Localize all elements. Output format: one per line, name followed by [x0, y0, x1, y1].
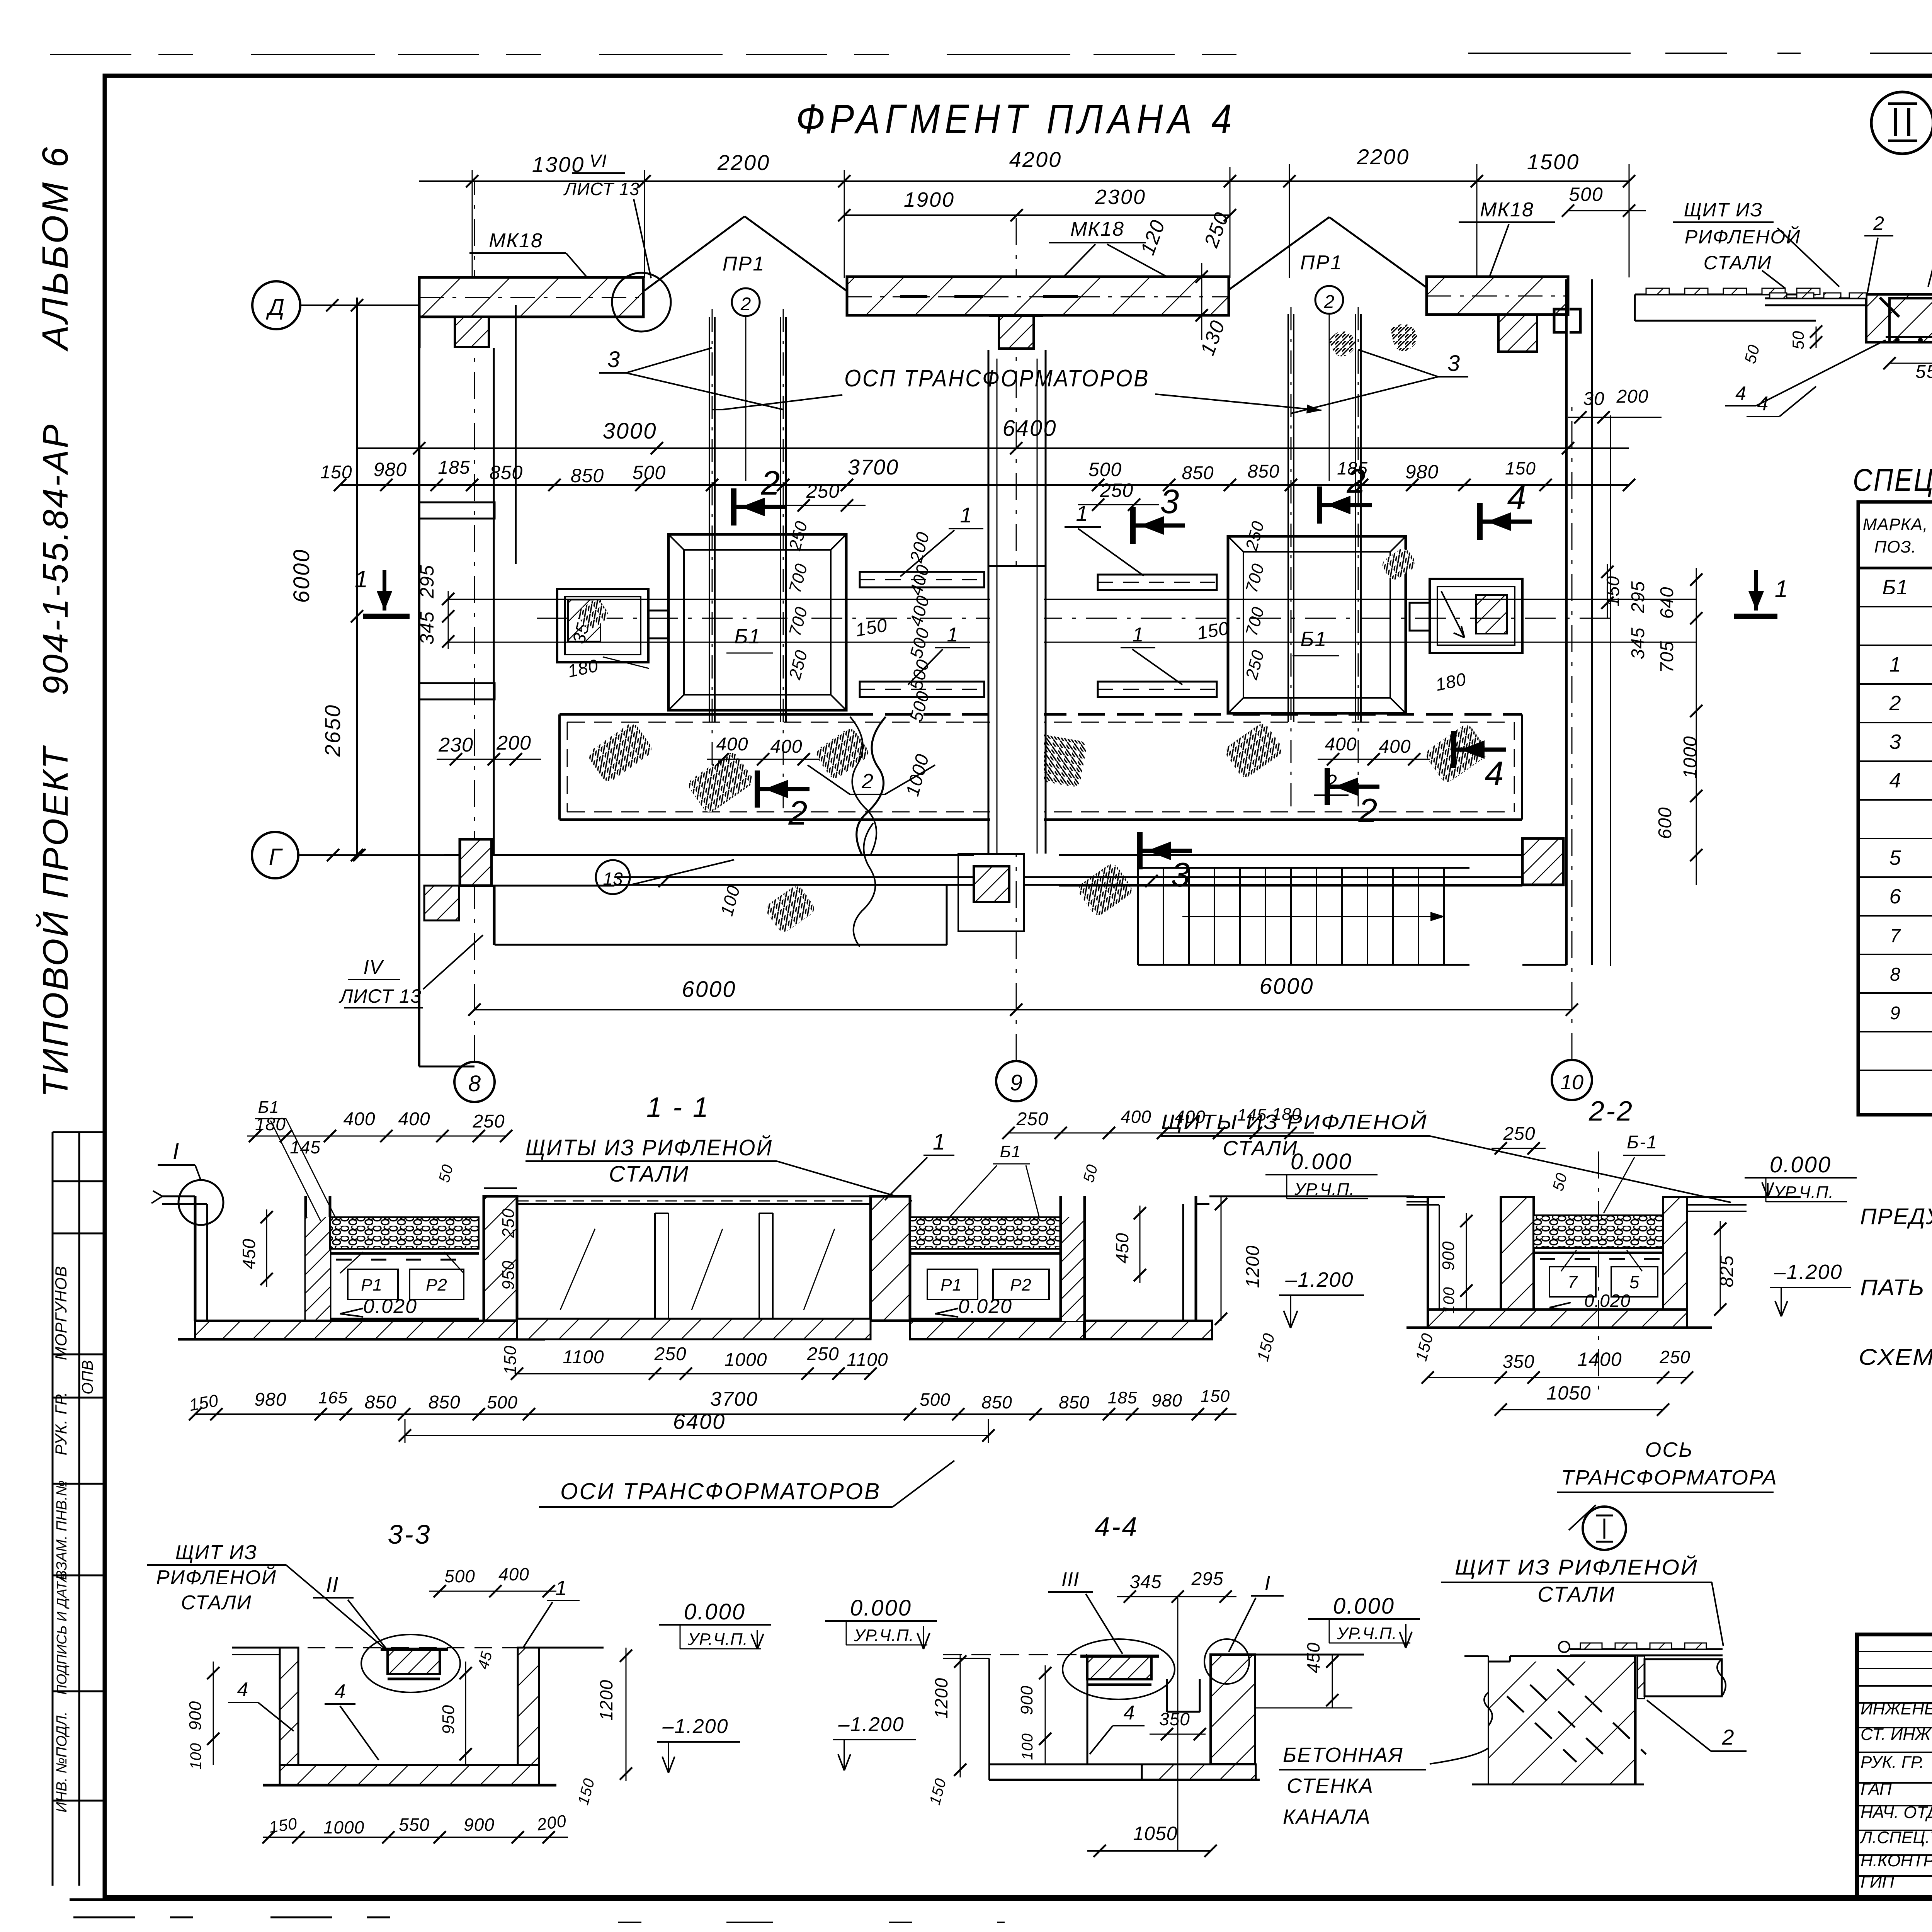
svg-text:4-4: 4-4 — [1095, 1512, 1138, 1542]
svg-text:СТАЛИ: СТАЛИ — [1537, 1582, 1616, 1606]
svg-text:СТАЛИ: СТАЛИ — [609, 1162, 689, 1187]
svg-text:I: I — [173, 1138, 179, 1164]
svg-text:9: 9 — [1010, 1070, 1022, 1095]
svg-text:СТ. ИНЖ: СТ. ИНЖ — [1861, 1725, 1932, 1744]
svg-text:500: 500 — [1569, 184, 1603, 205]
svg-text:1 - 1: 1 - 1 — [646, 1092, 710, 1123]
plan: transformer pit right (Б1) — [1228, 536, 1406, 713]
section 1-1: 6400 dim — [405, 1435, 988, 1436]
section 4-4: ground + pit — [943, 1654, 1087, 1655]
svg-text:2: 2 — [1324, 292, 1335, 312]
plan: top wall beam right (hatched) — [1427, 277, 1568, 315]
plan: canal hatch blobs — [586, 721, 654, 784]
detail I: left break mark — [1484, 1692, 1492, 1726]
title block rows (left part) — [1857, 1651, 1932, 1652]
detail II circle — [1871, 92, 1932, 154]
svg-text:ГАП: ГАП — [1861, 1780, 1892, 1799]
section 2-2: axis line vertical — [1598, 1151, 1599, 1391]
svg-text:850: 850 — [428, 1392, 460, 1413]
svg-text:50: 50 — [1789, 331, 1807, 350]
svg-text:30: 30 — [1583, 389, 1604, 409]
svg-text:900: 900 — [1017, 1685, 1036, 1715]
svg-text:9: 9 — [1890, 1003, 1901, 1024]
section 1-1: ground line — [162, 1196, 195, 1197]
svg-text:600: 600 — [1655, 807, 1675, 839]
svg-text:100: 100 — [1019, 1733, 1036, 1760]
plan: transformer rail lines right cell — [1287, 314, 1289, 722]
svg-text:ЛИСТ 13: ЛИСТ 13 — [563, 179, 639, 199]
svg-text:Б1: Б1 — [258, 1098, 279, 1117]
svg-text:145: 145 — [290, 1137, 321, 1157]
svg-text:500: 500 — [920, 1389, 951, 1410]
svg-text:250: 250 — [499, 1208, 518, 1238]
svg-text:6: 6 — [1889, 885, 1901, 908]
svg-text:3700: 3700 — [848, 455, 899, 479]
svg-text:5: 5 — [1889, 846, 1901, 869]
title block outer — [1857, 1634, 1932, 1897]
svg-text:1: 1 — [1076, 501, 1088, 526]
svg-text:450: 450 — [239, 1238, 259, 1269]
svg-text:РУК. ГР.: РУК. ГР. — [52, 1391, 70, 1455]
svg-text:850: 850 — [364, 1392, 396, 1413]
svg-text:0.000: 0.000 — [1291, 1149, 1352, 1174]
svg-text:185: 185 — [1108, 1388, 1137, 1407]
svg-text:–1.200: –1.200 — [1285, 1268, 1354, 1291]
svg-text:1050: 1050 — [1546, 1382, 1591, 1404]
svg-text:Л.СПЕЦ.Т.О: Л.СПЕЦ.Т.О — [1859, 1828, 1932, 1847]
plan: axis Д circle and line — [252, 281, 300, 329]
svg-text:200: 200 — [496, 732, 531, 754]
section 4-4: top beam МК hatched + oval — [1087, 1656, 1151, 1679]
plan: hatched column axis9/Г — [974, 866, 1009, 902]
section 1-1: bottom dim row B — [195, 1413, 1236, 1415]
svg-text:980: 980 — [1405, 461, 1439, 483]
svg-text:3-3: 3-3 — [388, 1519, 431, 1549]
plan: section flag 3 bottom — [1137, 832, 1143, 869]
svg-text:980: 980 — [1151, 1390, 1182, 1410]
svg-text:8: 8 — [468, 1071, 481, 1096]
svg-text:400: 400 — [1121, 1107, 1151, 1127]
plan: top dimension row 1 — [419, 180, 1629, 182]
plan: right wall — [1565, 279, 1568, 965]
svg-text:УР.Ч.П.: УР.Ч.П. — [1294, 1180, 1355, 1199]
svg-text:1400: 1400 — [1577, 1349, 1622, 1370]
svg-text:2: 2 — [1347, 462, 1366, 500]
svg-text:500: 500 — [633, 462, 666, 483]
svg-text:7: 7 — [1890, 926, 1901, 946]
spec table grid — [1858, 502, 1932, 1115]
section 3-3: top beam МК hatched + oval — [388, 1649, 440, 1674]
svg-text:ПОЗ.: ПОЗ. — [1874, 537, 1916, 556]
plan: bottom dim 6000+6000 — [474, 1009, 1572, 1010]
svg-text:904-1-55.84-АР: 904-1-55.84-АР — [36, 423, 75, 696]
svg-text:РУК. ГР.: РУК. ГР. — [1861, 1753, 1924, 1772]
svg-text:Б1: Б1 — [1000, 1142, 1021, 1161]
svg-text:6000: 6000 — [289, 548, 314, 603]
plan: hatched column axis8/Г — [460, 839, 492, 886]
svg-text:4200: 4200 — [1009, 147, 1062, 172]
svg-text:IV: IV — [363, 956, 384, 978]
svg-text:ФРАГМЕНТ ПЛАНА 4: ФРАГМЕНТ ПЛАНА 4 — [796, 95, 1236, 142]
svg-text:150: 150 — [320, 462, 352, 483]
plan: ventilation shaft crossing canal — [990, 568, 1044, 854]
plan: dim row 3000/6400 — [357, 447, 1629, 449]
svg-text:400: 400 — [770, 736, 802, 757]
svg-text:I: I — [1264, 1571, 1270, 1595]
svg-text:ОСИ ТРАНСФОРМАТОРОВ: ОСИ ТРАНСФОРМАТОРОВ — [560, 1478, 881, 1504]
section 1-1: detail I circle left — [179, 1180, 223, 1225]
section 2-2: left open pit — [1427, 1197, 1429, 1310]
svg-text:1900: 1900 — [904, 188, 955, 211]
svg-text:165: 165 — [318, 1388, 348, 1407]
svg-text:345: 345 — [1129, 1572, 1162, 1592]
plan: long oil canal strip — [560, 713, 846, 716]
svg-text:РИФЛЕНОЙ: РИФЛЕНОЙ — [1685, 226, 1801, 248]
svg-text:ПР1: ПР1 — [723, 253, 765, 275]
section 2-2: right wall hatched — [1663, 1197, 1687, 1310]
svg-text:3: 3 — [1171, 855, 1190, 894]
svg-text:1000: 1000 — [1680, 736, 1701, 779]
svg-text:0.020: 0.020 — [363, 1295, 417, 1318]
plan: [ ] channel symbol right — [1554, 309, 1565, 332]
detail II: beam cross-section — [1866, 294, 1932, 342]
svg-text:900: 900 — [186, 1701, 205, 1730]
svg-text:150: 150 — [1603, 576, 1623, 607]
svg-text:100: 100 — [1440, 1287, 1458, 1314]
section 1-1: gravel pit left — [330, 1217, 479, 1249]
plan: embedded element bars МН (thin rects) — [860, 572, 984, 587]
svg-text:ПАТЬ СЛОЕМ ГРАВИЯ ТОЛЩИНОЙ: ПАТЬ СЛОЕМ ГРАВИЯ ТОЛЩИНОЙ 250мм. КРУПНО… — [1860, 1275, 1932, 1300]
svg-text:ЩИТ ИЗ: ЩИТ ИЗ — [1684, 199, 1763, 221]
svg-text:2: 2 — [788, 794, 808, 832]
svg-text:ИНЖЕНЕР: ИНЖЕНЕР — [1861, 1699, 1932, 1718]
svg-text:Г: Г — [269, 844, 283, 870]
svg-text:150: 150 — [501, 1345, 520, 1375]
svg-text:Р2: Р2 — [1010, 1276, 1032, 1294]
svg-text:1100: 1100 — [563, 1347, 604, 1367]
svg-text:Б1: Б1 — [1300, 628, 1327, 651]
svg-text:Р1: Р1 — [940, 1276, 962, 1294]
svg-text:ИНВ. №ПОДЛ.: ИНВ. №ПОДЛ. — [54, 1711, 70, 1812]
detail I: concrete corner block — [1488, 1662, 1635, 1784]
svg-text:705: 705 — [1657, 641, 1677, 673]
svg-text:900: 900 — [464, 1815, 495, 1835]
svg-text:РИФЛЕНОЙ: РИФЛЕНОЙ — [156, 1566, 277, 1589]
section 2-2: bottom dims — [1428, 1377, 1687, 1378]
detail II: rifled sheets left/right — [1765, 298, 1866, 299]
plan: section flags 2 (top pair) — [731, 488, 736, 526]
section 1-1: steel sheet hatch top — [517, 1201, 871, 1202]
svg-text:1: 1 — [355, 566, 368, 593]
plan: transformer rail lines left cell — [709, 317, 710, 722]
svg-text:–1.200: –1.200 — [838, 1713, 904, 1736]
svg-text:2: 2 — [861, 770, 873, 793]
plan: dim row small spans — [340, 484, 1629, 486]
svg-text:850: 850 — [1182, 463, 1214, 483]
svg-text:5: 5 — [1629, 1272, 1640, 1292]
svg-text:1: 1 — [555, 1577, 567, 1600]
svg-text:СТАЛИ: СТАЛИ — [1704, 252, 1772, 274]
svg-text:6400: 6400 — [673, 1409, 726, 1434]
section 1-1: central chamber — [517, 1203, 871, 1205]
plan: left vertical dims 6000/2650 — [356, 298, 358, 855]
svg-text:1050: 1050 — [1133, 1823, 1177, 1844]
svg-text:ОПВ: ОПВ — [79, 1360, 96, 1395]
svg-text:150: 150 — [1505, 458, 1536, 478]
svg-text:ПОДПИСЬ И ДАТА: ПОДПИСЬ И ДАТА — [54, 1573, 70, 1695]
svg-text:СТАЛИ: СТАЛИ — [1223, 1137, 1298, 1160]
svg-text:1: 1 — [947, 624, 958, 646]
svg-text:400: 400 — [1379, 736, 1411, 757]
detail II: bottom rebar line — [1886, 336, 1932, 338]
plan: beam centrelines dash-dot — [419, 297, 643, 298]
svg-text:2: 2 — [1358, 791, 1378, 830]
svg-text:Н.КОНТР.: Н.КОНТР. — [1861, 1851, 1932, 1870]
plan: beam left end detail circle — [612, 273, 671, 332]
svg-text:1200: 1200 — [596, 1680, 616, 1721]
svg-text:2200: 2200 — [1357, 145, 1410, 169]
svg-text:2200: 2200 — [717, 150, 770, 175]
svg-text:ЩИТ ИЗ РИФЛЕНОЙ: ЩИТ ИЗ РИФЛЕНОЙ — [1455, 1555, 1698, 1579]
svg-text:250: 250 — [654, 1344, 686, 1364]
svg-text:4: 4 — [1507, 478, 1526, 517]
svg-text:ПР1: ПР1 — [1300, 252, 1343, 274]
plan: circle 2 right (ПР1) — [1315, 286, 1343, 314]
svg-text:550: 550 — [1915, 362, 1932, 382]
svg-text:4: 4 — [1889, 769, 1901, 792]
svg-text:УР.Ч.П.: УР.Ч.П. — [687, 1630, 748, 1649]
svg-text:4: 4 — [1124, 1702, 1135, 1724]
plan: axis Г circle and line — [252, 832, 298, 878]
svg-text:3000: 3000 — [602, 418, 657, 444]
svg-text:2: 2 — [761, 464, 780, 502]
plan: door opening symbols over ПР1 gaps — [645, 216, 745, 291]
svg-text:295: 295 — [1628, 581, 1648, 613]
svg-text:950: 950 — [499, 1260, 518, 1290]
plan: horizontal centreline through cells — [537, 618, 1615, 619]
section 3-3: bottom dims — [263, 1837, 568, 1838]
svg-text:400: 400 — [716, 734, 748, 755]
svg-text:Б1: Б1 — [734, 625, 761, 648]
section 2-2: hatched mid wall — [1501, 1197, 1534, 1310]
svg-text:II: II — [326, 1572, 338, 1597]
svg-text:ТРАНСФОРМАТОРА: ТРАНСФОРМАТОРА — [1561, 1466, 1777, 1489]
plan: wall pilaster bars — [419, 502, 495, 519]
svg-text:6000: 6000 — [682, 977, 736, 1002]
svg-text:1000: 1000 — [724, 1350, 767, 1370]
plan: axis 10 — [1552, 1060, 1592, 1100]
svg-text:1500: 1500 — [1527, 150, 1580, 174]
detail I: vertical strip + side rect — [1638, 1656, 1645, 1699]
svg-text:850: 850 — [981, 1392, 1012, 1412]
svg-text:400: 400 — [343, 1109, 375, 1129]
svg-text:250: 250 — [806, 1344, 839, 1364]
section 1-1: wall D hatched — [871, 1196, 910, 1321]
plan: column below centre beam — [999, 315, 1034, 349]
svg-text:0.000: 0.000 — [850, 1595, 912, 1621]
svg-text:1: 1 — [1889, 653, 1901, 676]
svg-text:400: 400 — [1325, 734, 1357, 755]
svg-text:СПЕЦИФИКАЦИЯ ЭЛЕМЕНТОВ К ФР: СПЕЦИФИКАЦИЯ ЭЛЕМЕНТОВ К ФРАГМЕНТУ ПЛАНА… — [1853, 463, 1932, 498]
svg-text:295: 295 — [1191, 1569, 1223, 1589]
plan: corridor lower edge — [495, 944, 947, 946]
svg-text:2650: 2650 — [320, 704, 345, 757]
svg-text:350: 350 — [1502, 1352, 1534, 1372]
plan: left lower wall segment — [418, 855, 420, 1066]
section 2-2: gravel pit — [1534, 1215, 1663, 1248]
svg-text:350: 350 — [1159, 1709, 1190, 1729]
svg-text:АЛЬБОМ 6: АЛЬБОМ 6 — [35, 145, 76, 352]
section 1-1: bottom dim row A — [517, 1373, 871, 1374]
plan: wavy break line across canal — [857, 717, 886, 856]
section 3-3: dashed floor line — [280, 1647, 518, 1648]
svg-text:185: 185 — [438, 457, 470, 478]
svg-text:250: 250 — [1016, 1109, 1048, 1129]
svg-text:ВЗАМ. ПНВ.№: ВЗАМ. ПНВ.№ — [54, 1480, 70, 1580]
section 1-1: wall E + right open pit — [1061, 1217, 1085, 1321]
svg-text:400: 400 — [498, 1564, 529, 1584]
svg-text:0.000: 0.000 — [684, 1599, 746, 1624]
svg-text:2: 2 — [1721, 1725, 1734, 1749]
plan: axis 9 — [996, 1061, 1036, 1101]
svg-text:Б1: Б1 — [1882, 576, 1908, 599]
svg-text:Д: Д — [266, 294, 284, 320]
scan artifact: bottom left dashes — [73, 1917, 444, 1918]
section 1-1: bottom slab left — [195, 1321, 543, 1339]
svg-text:1: 1 — [1775, 576, 1788, 602]
plan: section flags 3/4 top — [1130, 507, 1136, 544]
svg-text:10: 10 — [1560, 1071, 1583, 1094]
section 1-1: wall C hatched — [484, 1196, 517, 1321]
svg-text:1100: 1100 — [847, 1350, 888, 1370]
scan artifact: broken top paper edge line — [50, 54, 1294, 55]
svg-text:230: 230 — [438, 734, 473, 756]
svg-text:–1.200: –1.200 — [662, 1715, 728, 1738]
svg-text:МАРКА,: МАРКА, — [1863, 515, 1928, 534]
svg-text:ЩИТ ИЗ: ЩИТ ИЗ — [175, 1541, 258, 1564]
svg-text:МОРГУНОВ: МОРГУНОВ — [52, 1266, 70, 1360]
svg-text:6400: 6400 — [1002, 416, 1057, 441]
svg-text:2: 2 — [1889, 692, 1901, 715]
section 3-3: ground lines — [232, 1647, 280, 1649]
svg-text:Р1: Р1 — [361, 1276, 383, 1294]
svg-text:345: 345 — [1628, 627, 1648, 659]
svg-text:–1.200: –1.200 — [1774, 1260, 1842, 1284]
svg-text:4: 4 — [1735, 383, 1746, 404]
svg-text:295: 295 — [416, 565, 438, 599]
plan: bottom wall on axis Г — [444, 854, 974, 856]
section 1-1: gravel pit right — [910, 1217, 1061, 1249]
svg-text:1200: 1200 — [1243, 1245, 1263, 1288]
svg-text:500: 500 — [444, 1566, 475, 1586]
svg-text:ПРЕДУСМОТРЕТЬ УСТАНОВКУ ЗАКЛ: ПРЕДУСМОТРЕТЬ УСТАНОВКУ ЗАКЛАДНЫХ ЭЛЕМЕН… — [1860, 1204, 1932, 1229]
plan: right oil pit — [1430, 579, 1522, 653]
svg-text:БЕТОННАЯ: БЕТОННАЯ — [1283, 1743, 1403, 1767]
svg-text:2300: 2300 — [1095, 185, 1146, 209]
section 2-2: bottom slab — [1428, 1310, 1687, 1328]
svg-text:III: III — [1061, 1568, 1079, 1591]
svg-text:250: 250 — [472, 1111, 505, 1132]
svg-text:850: 850 — [1059, 1392, 1090, 1412]
svg-text:4: 4 — [335, 1680, 346, 1703]
svg-text:3700: 3700 — [710, 1388, 758, 1410]
svg-text:6000: 6000 — [1259, 974, 1314, 999]
svg-text:200: 200 — [1616, 386, 1648, 407]
svg-text:МК18: МК18 — [1480, 199, 1534, 221]
svg-text:УР.Ч.П.: УР.Ч.П. — [854, 1626, 914, 1645]
svg-text:МК18: МК18 — [489, 230, 543, 252]
svg-text:500: 500 — [487, 1392, 518, 1412]
plan: 200 offset line right of wall — [1610, 415, 1611, 966]
section 2-2: circle I below — [1583, 1507, 1626, 1550]
plan: rifled steel sheet strip top-right — [1635, 294, 1816, 296]
left margin vertical stamp table — [52, 1132, 54, 1886]
svg-text:ГИП: ГИП — [1861, 1872, 1894, 1891]
svg-text:400: 400 — [398, 1109, 430, 1129]
svg-text:980: 980 — [374, 459, 407, 480]
svg-text:250: 250 — [1503, 1124, 1535, 1144]
plan: corridor rail double line — [614, 876, 974, 878]
svg-text:850: 850 — [571, 465, 604, 486]
svg-text:2: 2 — [1873, 213, 1884, 234]
svg-text:1000: 1000 — [323, 1817, 364, 1837]
section 1-1: bottom slab centre — [517, 1319, 871, 1339]
svg-text:ЛИСТ 13: ЛИСТ 13 — [338, 985, 422, 1007]
plan: top dimension row 2 — [844, 214, 1230, 216]
svg-text:1: 1 — [933, 1129, 945, 1155]
svg-text:3: 3 — [1447, 351, 1460, 376]
svg-text:ЩИТЫ ИЗ РИФЛЕНОЙ: ЩИТЫ ИЗ РИФЛЕНОЙ — [1161, 1110, 1428, 1134]
svg-text:250: 250 — [806, 480, 840, 502]
svg-text:0.000: 0.000 — [1770, 1152, 1832, 1177]
svg-text:850: 850 — [1247, 461, 1279, 482]
plan: hatched column axis10/Г — [1522, 838, 1563, 885]
detail I: rifled sheet on top — [1570, 1648, 1723, 1650]
plan: horizontal extension lines across cells — [448, 599, 1696, 600]
svg-text:1: 1 — [1133, 624, 1144, 646]
svg-text:ОСЬ: ОСЬ — [1645, 1438, 1693, 1461]
plan: circle 13 label — [596, 860, 630, 894]
svg-text:0.020: 0.020 — [1584, 1291, 1631, 1311]
svg-text:КАНАЛА: КАНАЛА — [1283, 1805, 1371, 1828]
section 4-4: small inner pit — [1166, 1679, 1168, 1712]
svg-text:1200: 1200 — [931, 1678, 951, 1719]
svg-text:13: 13 — [603, 869, 623, 889]
svg-text:950: 950 — [439, 1705, 458, 1734]
plan: column below right beam — [1498, 315, 1537, 352]
plan: stairs — [1137, 868, 1139, 965]
svg-text:УР.Ч.П.: УР.Ч.П. — [1337, 1624, 1397, 1643]
svg-text:8: 8 — [1890, 964, 1901, 985]
svg-text:0.020: 0.020 — [958, 1295, 1012, 1318]
plan: ink smudges — [1329, 331, 1355, 356]
svg-text:Б-1: Б-1 — [1627, 1132, 1658, 1153]
svg-text:900: 900 — [1439, 1241, 1458, 1270]
svg-text:3: 3 — [1889, 730, 1901, 753]
section 1-1: left open pit — [194, 1196, 197, 1321]
plan: left exterior wall — [418, 286, 420, 855]
section 3-3: pit walls — [280, 1648, 298, 1765]
plan: top wall beam centre (hatched) — [847, 277, 1229, 315]
plan: transformer pit left (Б1) — [668, 534, 846, 710]
svg-text:4: 4 — [1485, 754, 1504, 793]
svg-text:450: 450 — [1112, 1233, 1132, 1264]
svg-text:4: 4 — [237, 1679, 248, 1701]
svg-text:СХЕМУ РАСКЛАДКИ ЩИТОВ СМ. Н: СХЕМУ РАСКЛАДКИ ЩИТОВ СМ. НА ЛИСТЕ ТП904… — [1859, 1345, 1932, 1370]
plan: column below left beam — [455, 317, 489, 347]
svg-text:Р2: Р2 — [426, 1276, 447, 1294]
svg-text:3: 3 — [1160, 482, 1179, 520]
